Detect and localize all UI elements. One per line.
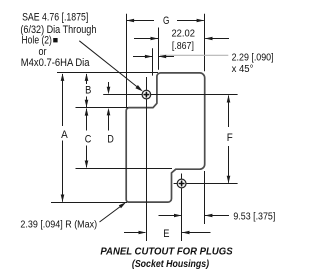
- hole H2 vertical centerline: [181, 174, 183, 242]
- dimension G: [127, 15, 205, 27]
- svg-text:2.39 [.094] R (Max): 2.39 [.094] R (Max): [20, 219, 97, 230]
- svg-text:PANEL CUTOUT FOR PLUGS: PANEL CUTOUT FOR PLUGS: [100, 246, 232, 258]
- svg-text:or: or: [39, 46, 47, 58]
- svg-text:G: G: [163, 15, 169, 27]
- svg-text:(Socket Housings): (Socket Housings): [132, 258, 210, 270]
- dimension A: [61, 73, 69, 202]
- svg-text:x 45°: x 45°: [232, 64, 254, 75]
- svg-text:B: B: [85, 85, 91, 97]
- 2.39 radius leader arrow: [100, 202, 127, 222]
- svg-text:D: D: [107, 134, 114, 146]
- dimension 9.53 [.375]: [159, 211, 276, 222]
- hole H1 horizontal centerline: [103, 94, 237, 96]
- svg-text:E: E: [163, 228, 169, 240]
- SAE hole note text: [20, 12, 96, 69]
- dimension C: [85, 108, 92, 168]
- bottom edge extension line: [51, 202, 127, 204]
- G left extension line: [126, 14, 128, 108]
- svg-text:M4x0.7-6HA Dia: M4x0.7-6HA Dia: [21, 57, 90, 69]
- hole H2 horizontal centerline: [174, 183, 238, 185]
- waist edge extension line: [76, 168, 173, 170]
- mounting hole H2: [177, 179, 186, 188]
- top edge extension line: [57, 72, 158, 74]
- svg-text:A: A: [61, 129, 68, 141]
- dimension D lower arrow and label: [107, 108, 114, 146]
- svg-text:2.29 [.090]: 2.29 [.090]: [232, 52, 274, 63]
- dimension B: [85, 73, 92, 107]
- svg-text:Hole (2): Hole (2): [22, 34, 52, 46]
- dimension E: [124, 228, 211, 240]
- panel cutout outline: [126, 73, 205, 202]
- right edge extension line lower: [204, 171, 206, 224]
- 2.29 left extension line: [152, 48, 154, 75]
- dimension 2.29 chamfer leader: [133, 52, 274, 75]
- SAE note leader arrow to hole H1: [79, 41, 143, 92]
- hole H1 vertical centerline: [146, 77, 148, 241]
- svg-text:C: C: [85, 134, 92, 146]
- svg-text:SAE 4.76 [.1875]: SAE 4.76 [.1875]: [22, 12, 88, 24]
- mounting hole H1: [142, 90, 151, 99]
- dimension 22.02 [.867]: [134, 29, 229, 52]
- dimension D upper arrow: [107, 82, 111, 94]
- svg-text:22.02: 22.02: [171, 29, 195, 40]
- 22.02 left extension line: [158, 28, 160, 70]
- svg-text:9.53 [.375]: 9.53 [.375]: [233, 211, 275, 222]
- svg-text:[.867]: [.867]: [172, 41, 194, 52]
- step edge extension line: [76, 107, 129, 109]
- svg-text:F: F: [227, 132, 233, 144]
- dimension F: [227, 95, 233, 183]
- right edge extension line upper: [204, 14, 206, 71]
